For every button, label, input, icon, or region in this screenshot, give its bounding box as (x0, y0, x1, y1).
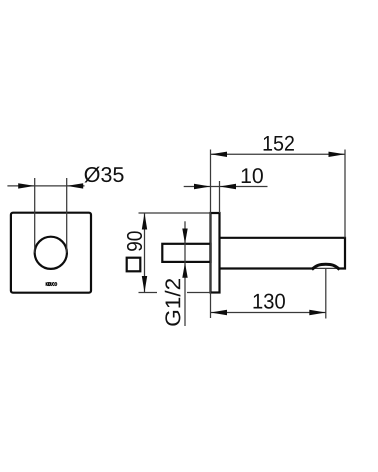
front escutcheon plate (square 90x90) (11, 213, 91, 293)
extension line right tangent of circle (66, 178, 68, 253)
arrowhead 90 bottom (142, 276, 147, 293)
arrowhead Ø35 right (outside, pointing left) (67, 183, 84, 188)
spout outlet circle front view (Ø35) (35, 237, 67, 269)
arrowhead 152 right (329, 152, 346, 157)
arrowhead 130 right (309, 310, 326, 315)
dimension line Ø35 (7, 185, 84, 187)
square symbol of square-90 (127, 258, 141, 272)
arrowhead 10 left (outside, pointing right) (194, 184, 211, 189)
dimension line 10 (184, 186, 268, 188)
outlet opening straight edge (312, 267, 340, 269)
arrowhead 152 left (211, 152, 228, 157)
extension line plate top (for 90) (139, 212, 211, 214)
label G1/2 (rotated) (165, 279, 181, 326)
arrowhead 130 left (211, 310, 228, 315)
extension line left tangent of circle (34, 178, 36, 253)
extension line plate rear for 10 (219, 181, 221, 213)
label 90 (rotated) (127, 231, 142, 251)
KEUCO wordmark on plate (46, 282, 57, 286)
dimension line 90 (vertical) (144, 213, 146, 293)
extension line outlet centre (325, 269, 327, 319)
arrowhead G1/2 top (outside, pointing down) (182, 229, 187, 244)
arrowhead 10 right (outside, pointing left) (220, 184, 237, 189)
label Ø35 (84, 167, 123, 183)
aerator outlet arc (312, 264, 340, 269)
G1/2 connection stub (162, 244, 210, 262)
extension line spout tip (344, 150, 346, 238)
spout body side view (220, 238, 346, 269)
arrowhead G1/2 bottom (outside, pointing up) (182, 263, 187, 278)
dimension line 152 (211, 153, 346, 155)
label 152 (264, 136, 294, 151)
dimension line 130 (211, 312, 326, 314)
label 10 (242, 168, 263, 183)
arrowhead Ø35 left (outside, pointing right) (18, 183, 35, 188)
dimension line G1/2 (vertical through stub) (184, 221, 186, 326)
side view wall plate (10 thick) (211, 213, 220, 293)
extension line plate bottom (for 90, broken by G1/2 text) (139, 292, 158, 294)
extension line wall face (shared by 152 and 130) (210, 150, 212, 319)
label 130 (254, 294, 285, 309)
arrowhead 90 top (142, 213, 147, 230)
